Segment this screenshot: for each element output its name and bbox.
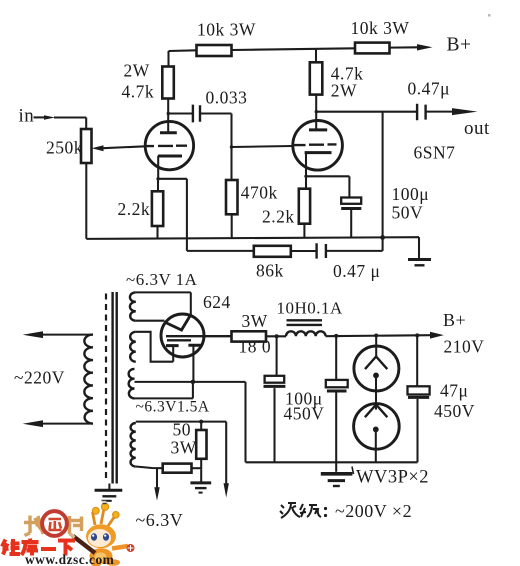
svg-text:10k 3W: 10k 3W [197,20,256,40]
svg-text:100μ: 100μ [392,184,430,204]
svg-text:50: 50 [173,420,192,440]
svg-text:~6.3V 1A: ~6.3V 1A [126,270,198,289]
svg-text:www.dzsc.com: www.dzsc.com [25,552,114,566]
svg-text:47μ: 47μ [440,381,468,401]
svg-text:450V: 450V [434,401,475,421]
svg-text:0.47μ: 0.47μ [408,79,451,99]
svg-text:3W: 3W [242,311,268,331]
svg-text:2W: 2W [331,81,357,101]
svg-text:in: in [19,106,35,127]
svg-text:2W: 2W [124,61,150,81]
svg-text:~6.3V: ~6.3V [136,510,184,530]
svg-text:2.2k: 2.2k [262,207,295,227]
svg-text:out: out [464,118,490,139]
svg-text:86k: 86k [256,261,284,281]
svg-text:B+: B+ [443,310,466,330]
svg-text:450V: 450V [284,404,325,424]
svg-text:~220V: ~220V [14,368,65,388]
svg-text:3W: 3W [171,438,197,458]
svg-text:470k: 470k [241,183,278,203]
svg-text:4.7k: 4.7k [122,81,155,101]
svg-text:50V: 50V [392,203,424,223]
svg-text:2.2k: 2.2k [118,199,151,219]
svg-text:~200V ×2: ~200V ×2 [335,501,412,521]
svg-text:18 0: 18 0 [239,337,272,357]
svg-text:~6.3V1.5A: ~6.3V1.5A [136,399,210,416]
svg-text:B+: B+ [447,35,472,56]
svg-text:WV3P×2: WV3P×2 [356,468,429,488]
svg-text:10H0.1A: 10H0.1A [277,299,344,318]
svg-text:0.47 μ: 0.47 μ [333,261,380,281]
svg-text:0.033: 0.033 [206,88,248,108]
svg-text:10k 3W: 10k 3W [351,18,410,38]
svg-text:250k: 250k [46,138,83,158]
svg-text:624: 624 [203,292,231,312]
svg-text:210V: 210V [444,337,485,357]
svg-text:6SN7: 6SN7 [414,143,456,163]
